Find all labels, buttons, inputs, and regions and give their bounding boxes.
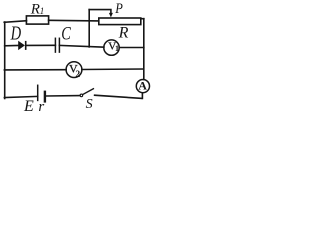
svg-text:S: S: [86, 97, 93, 112]
svg-text:R: R: [30, 2, 40, 18]
wire wiper arm: [89, 10, 111, 14]
resistor R1: [26, 16, 48, 24]
wire R1 to P box: [49, 19, 99, 22]
wire battery to switch: [46, 95, 80, 97]
svg-text:1: 1: [40, 6, 45, 16]
svg-text:1: 1: [115, 44, 119, 53]
svg-text:R: R: [118, 24, 129, 41]
wire switch to right rail: [95, 95, 142, 98]
capacitor C: [55, 38, 59, 52]
wire junction vertical: [88, 10, 90, 47]
wire bottom-left to battery: [4, 96, 37, 97]
wire right rail upper: [143, 19, 145, 80]
svg-text:C: C: [61, 23, 71, 44]
wire V2 to right rail: [82, 68, 144, 71]
wire right rail below ammeter: [141, 93, 143, 98]
potentiometer P: [99, 18, 141, 25]
ammeter A: [136, 80, 149, 93]
voltmeter V2: [66, 62, 82, 78]
svg-text:r: r: [38, 99, 44, 115]
diode D: [18, 13, 113, 50]
svg-text:2: 2: [75, 70, 80, 80]
wire diode to capacitor: [26, 44, 55, 46]
wiper arrowhead: [109, 13, 113, 18]
svg-text:E: E: [23, 98, 34, 115]
wire V1 to right rail: [119, 47, 144, 49]
switch S: [80, 89, 93, 97]
wire D row from border: [5, 45, 19, 47]
svg-text:A: A: [138, 79, 147, 93]
wire middle row: [4, 69, 66, 71]
wire P to right rail: [141, 18, 144, 20]
svg-text:P: P: [114, 1, 122, 17]
svg-text:D: D: [10, 23, 22, 45]
wire capacitor to V1: [59, 45, 104, 47]
battery E r: [38, 85, 45, 101]
wire left border: [4, 22, 6, 99]
voltmeter V1: [104, 40, 119, 55]
wire top-left to R1: [4, 21, 26, 23]
